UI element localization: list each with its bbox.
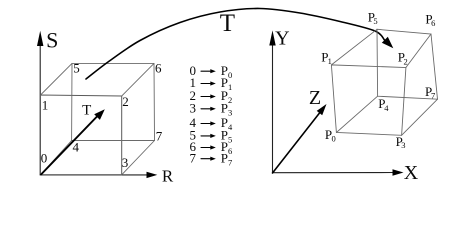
mapping row 3 xyxy=(190,101,233,118)
mapping row 5 xyxy=(190,128,233,145)
mapping row 0 xyxy=(190,63,233,80)
svg-text:3: 3 xyxy=(228,108,232,118)
right cube edge P2-P6 xyxy=(406,34,431,68)
Z axis xyxy=(273,113,320,173)
left cube edge 1-5 xyxy=(41,63,73,95)
mapping row 4 xyxy=(190,115,233,132)
right cube edge P1-P5 xyxy=(331,29,377,65)
T arrow inside left cube xyxy=(41,117,97,175)
X axis xyxy=(273,172,394,174)
left cube front face xyxy=(41,95,122,175)
svg-text:2: 2 xyxy=(228,95,232,105)
svg-text:6: 6 xyxy=(431,18,435,28)
svg-text:5: 5 xyxy=(73,61,80,76)
R axis xyxy=(40,174,149,176)
svg-text:4: 4 xyxy=(384,103,389,113)
svg-text:7: 7 xyxy=(156,128,163,143)
svg-text:0: 0 xyxy=(228,70,232,80)
svg-text:5: 5 xyxy=(228,135,232,145)
svg-text:0: 0 xyxy=(41,150,48,165)
svg-text:3: 3 xyxy=(190,101,197,116)
svg-text:7: 7 xyxy=(190,150,197,165)
svg-text:2: 2 xyxy=(404,56,408,66)
svg-text:3: 3 xyxy=(401,140,405,150)
svg-text:4: 4 xyxy=(228,122,233,132)
svg-text:P: P xyxy=(221,101,228,116)
big curved arrow T (left cube to right cube) xyxy=(86,8,385,79)
svg-text:1: 1 xyxy=(228,82,232,92)
mapping row 7 xyxy=(190,150,233,167)
left cube edge 3-7 xyxy=(122,141,155,175)
mapping list rows 0..7 xyxy=(190,63,233,167)
mapping row 1 xyxy=(190,75,233,92)
svg-text:3: 3 xyxy=(122,155,129,170)
Y axis xyxy=(272,44,274,173)
svg-text:X: X xyxy=(404,162,419,184)
svg-text:2: 2 xyxy=(122,94,129,109)
svg-text:P: P xyxy=(221,150,228,165)
svg-text:R: R xyxy=(162,167,174,186)
mapping row 2 xyxy=(190,88,233,105)
left cube edge 2-6 xyxy=(122,63,154,96)
svg-text:1: 1 xyxy=(328,56,332,66)
right cube back face P4-P5-P6-P7 xyxy=(377,29,438,99)
svg-text:Y: Y xyxy=(275,28,289,50)
svg-text:0: 0 xyxy=(332,133,336,143)
svg-text:7: 7 xyxy=(431,91,435,101)
svg-text:T: T xyxy=(82,102,91,118)
right cube edge P3-P7 xyxy=(402,99,438,135)
S axis xyxy=(39,45,41,175)
svg-text:S: S xyxy=(46,28,58,53)
svg-text:6: 6 xyxy=(155,61,162,76)
right cube edge P0-P4 xyxy=(336,96,377,132)
svg-text:T: T xyxy=(220,10,235,37)
left cube back face xyxy=(72,63,155,140)
svg-text:Z: Z xyxy=(309,87,321,109)
mapping row 6 xyxy=(190,139,233,156)
svg-text:5: 5 xyxy=(373,16,377,26)
svg-text:1: 1 xyxy=(42,97,49,112)
svg-text:7: 7 xyxy=(228,157,232,167)
left cube edge 0-4 xyxy=(41,141,72,175)
svg-text:6: 6 xyxy=(228,146,232,156)
right cube front face P0-P1-P2-P3 xyxy=(331,65,406,135)
